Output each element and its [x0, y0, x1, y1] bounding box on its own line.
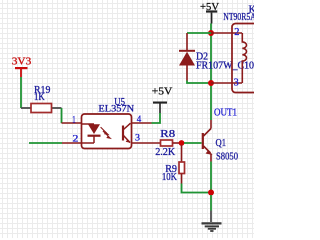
svg-text:R8: R8 — [160, 129, 175, 140]
svg-text:S8050: S8050 — [216, 152, 238, 163]
junction top rail — [208, 30, 214, 36]
U5 LED light arrows — [101, 127, 111, 138]
svg-text:3V3: 3V3 — [12, 56, 32, 68]
junction emitter node — [208, 190, 214, 196]
wire junction to Q1 base — [184, 142, 202, 144]
wire node to ground — [210, 195, 212, 211]
ground — [202, 211, 222, 232]
U5 internal LED — [82, 124, 101, 143]
power port 3V3 — [12, 56, 32, 78]
svg-text:FR107W_C107: FR107W_C107 — [196, 61, 254, 72]
junction bottom rail — [208, 80, 214, 86]
wire OUT1 vertical — [210, 24, 212, 121]
U5 pin 2 — [62, 142, 82, 144]
power port +5V (left) — [152, 86, 173, 114]
resistor R8 — [161, 140, 173, 146]
svg-text:1K: 1K — [34, 92, 45, 103]
svg-text:EL357N: EL357N — [98, 104, 134, 115]
relay K coil pin 3 — [211, 82, 242, 84]
R9 bottom pin — [181, 174, 183, 184]
wire D2 bottom to node — [187, 81, 211, 84]
svg-text:2: 2 — [234, 27, 239, 38]
svg-text:1: 1 — [72, 115, 76, 126]
svg-text:OUT1: OUT1 — [214, 108, 237, 119]
svg-text:+5V: +5V — [152, 86, 173, 98]
transistor Q1 — [202, 120, 213, 162]
wire Q1 emitter down — [210, 162, 212, 193]
U5 pin 4 — [132, 122, 152, 124]
svg-text:2: 2 — [73, 134, 79, 145]
svg-text:4: 4 — [137, 114, 142, 125]
wire R19 to U5 pin1 — [61, 108, 63, 123]
wire top rail to D2 — [187, 32, 211, 34]
relay K body — [232, 24, 264, 93]
svg-text:NT90R5A: NT90R5A — [223, 12, 254, 23]
wire to U5 pin2 — [29, 142, 62, 144]
wire U5 pin4 to +5V — [152, 113, 161, 123]
svg-text:10K: 10K — [162, 172, 178, 183]
wire 3V3 to R19 — [20, 77, 22, 108]
diode D2 — [179, 33, 195, 81]
relay K coil pin 2 — [211, 32, 242, 34]
svg-text:2.2K: 2.2K — [155, 147, 175, 158]
svg-text:3: 3 — [234, 77, 239, 88]
relay K coil — [242, 33, 246, 83]
resistor R19 — [21, 104, 62, 113]
optocoupler U5 body — [82, 114, 132, 149]
power port +5V (top) — [200, 1, 219, 24]
R8 right pin — [173, 142, 182, 144]
junction base node — [179, 140, 185, 146]
wire R9 to emitter node — [182, 184, 212, 193]
U5 pin 1 — [62, 122, 82, 124]
U5 pin 3 — [132, 142, 161, 144]
svg-text:Q1: Q1 — [216, 138, 227, 149]
U5 phototransistor — [123, 123, 131, 143]
R9 top pin — [181, 145, 183, 162]
svg-text:3: 3 — [135, 133, 140, 144]
resistor R9 — [179, 162, 185, 174]
